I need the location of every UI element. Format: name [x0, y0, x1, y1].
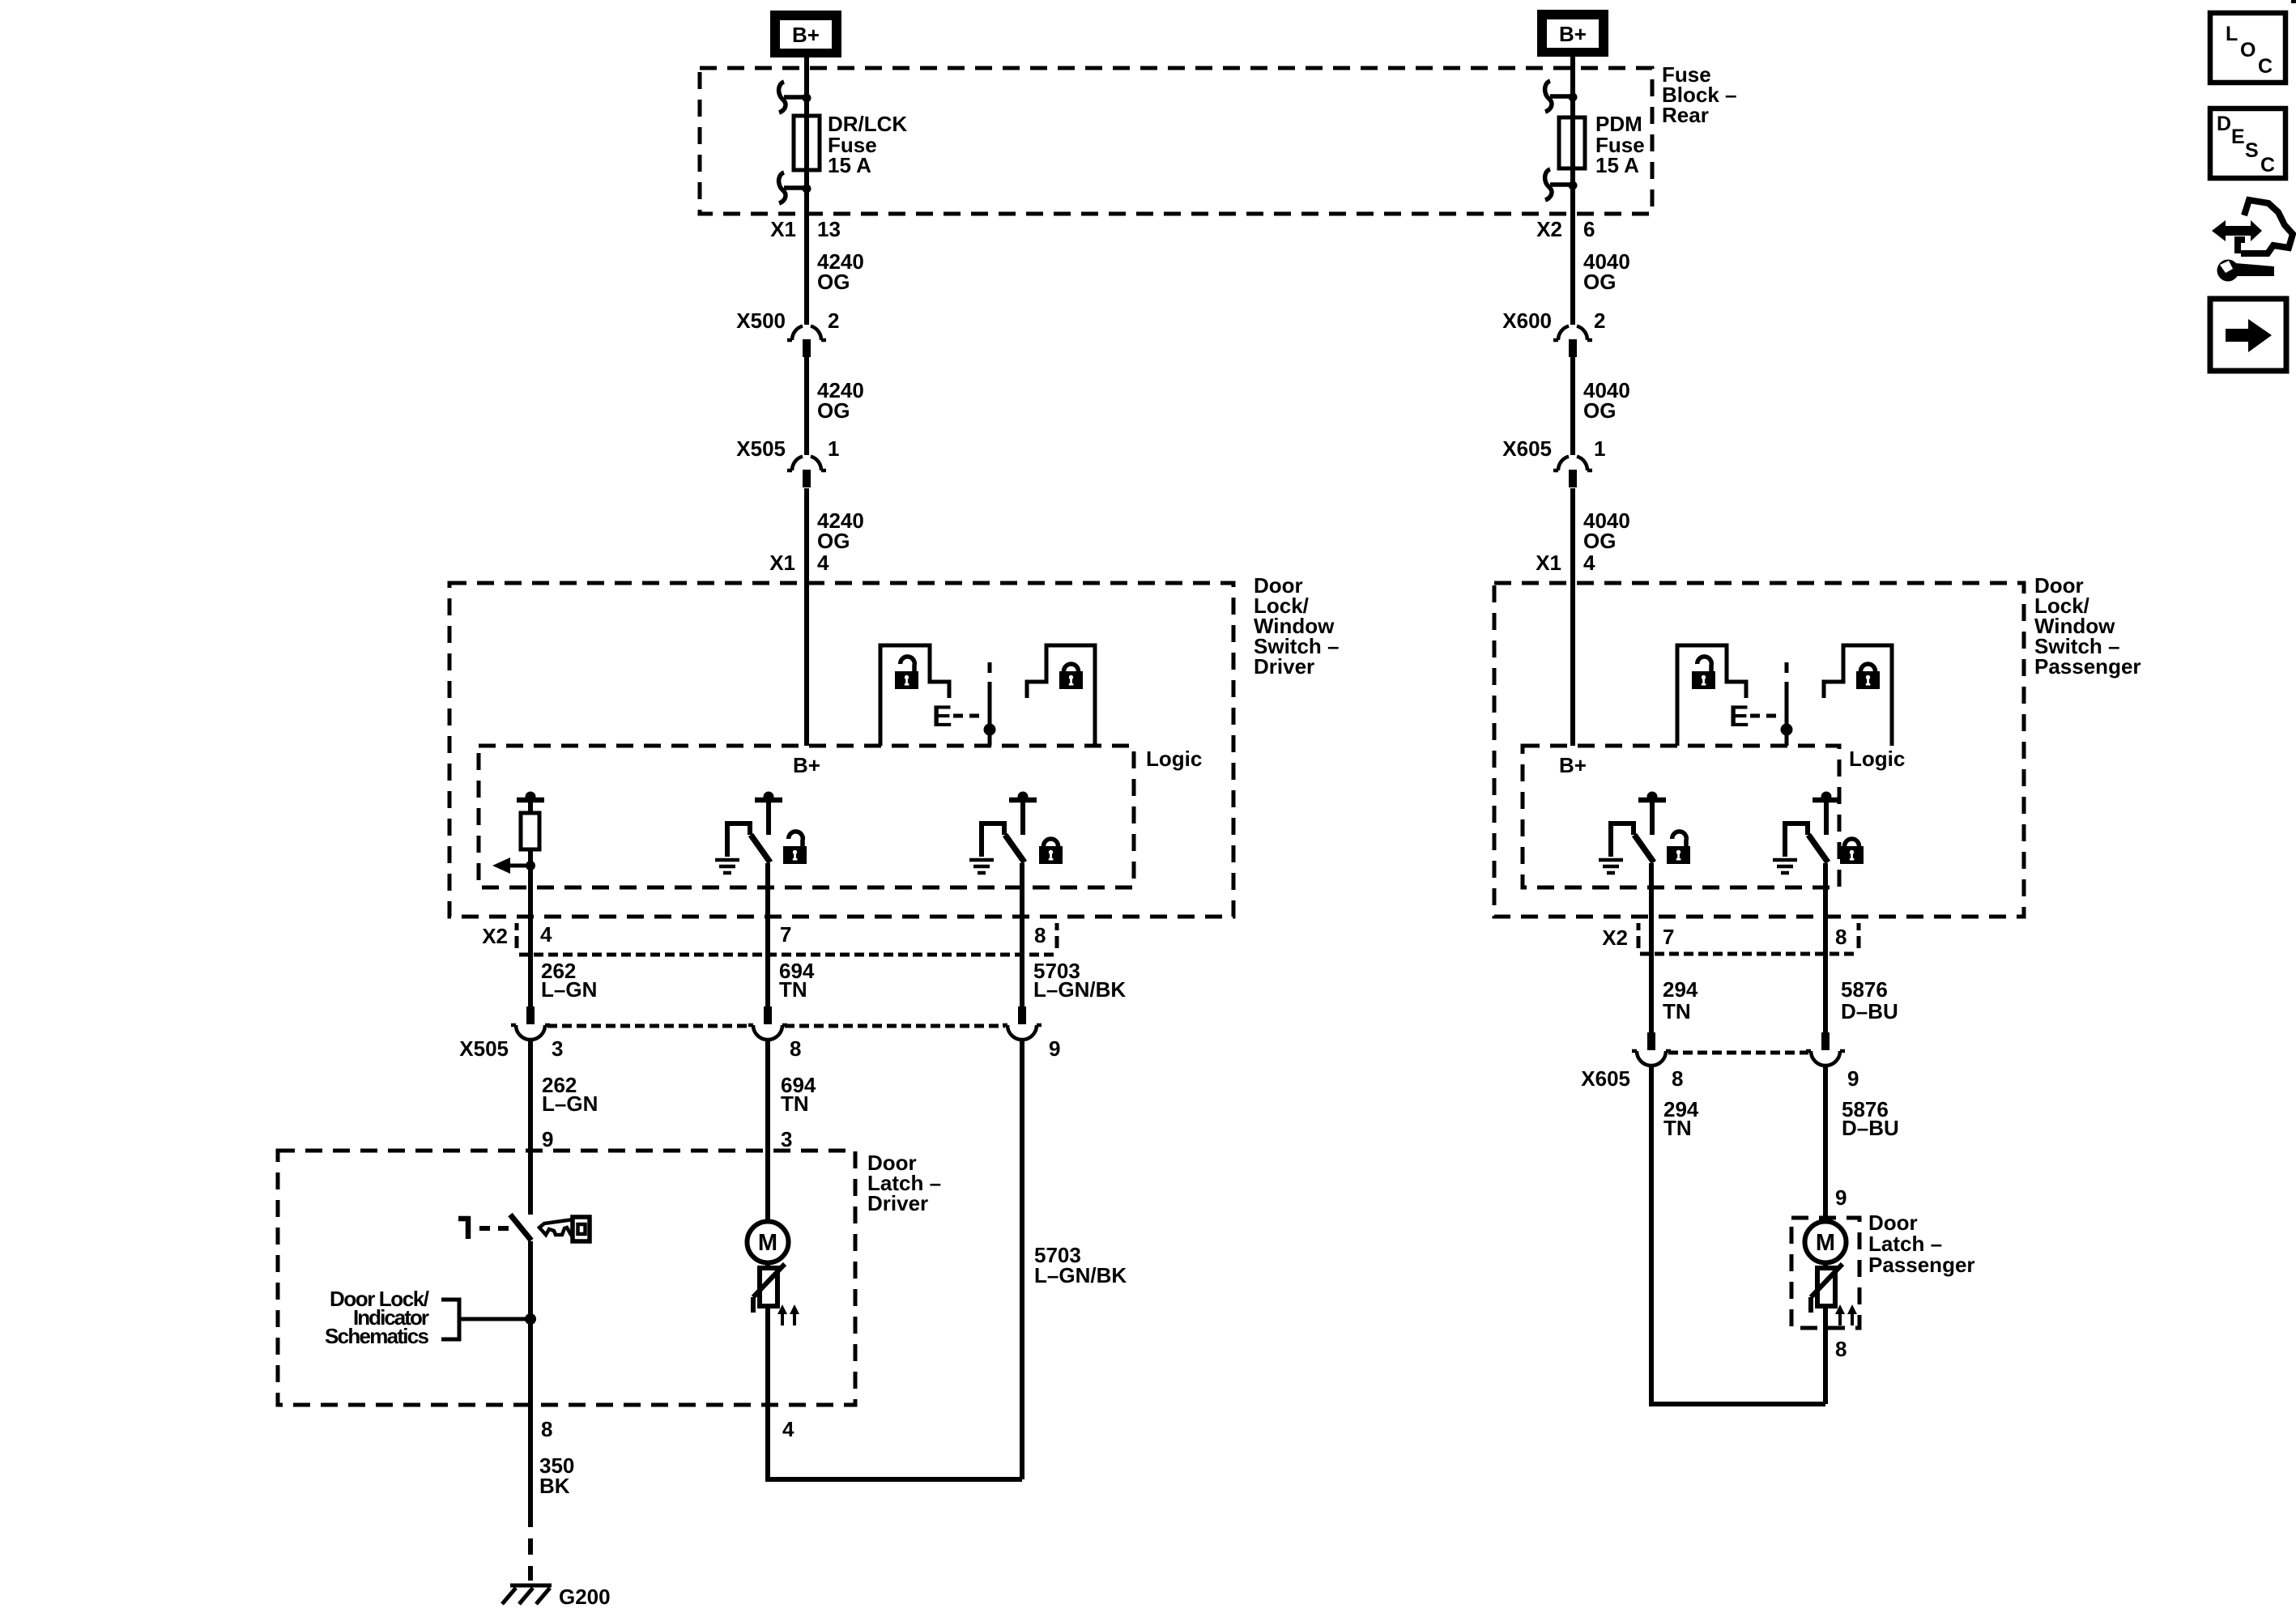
svg-text:8: 8 [1835, 1337, 1847, 1361]
svg-text:Schematics: Schematics [325, 1324, 429, 1348]
svg-text:9: 9 [1835, 1185, 1847, 1210]
svg-text:Logic: Logic [1849, 747, 1905, 771]
svg-text:X2: X2 [1602, 926, 1628, 950]
svg-text:6: 6 [1583, 217, 1595, 241]
svg-text:L–GN/BK: L–GN/BK [1034, 1263, 1127, 1287]
svg-text:13: 13 [817, 217, 841, 241]
svg-text:X600: X600 [1502, 309, 1552, 333]
svg-text:X505: X505 [459, 1036, 509, 1061]
svg-text:L: L [2226, 23, 2238, 45]
svg-text:Driver: Driver [1254, 654, 1314, 679]
svg-text:Passenger: Passenger [2034, 654, 2141, 679]
svg-text:OG: OG [817, 398, 850, 423]
svg-text:E: E [2231, 126, 2245, 148]
svg-text:4: 4 [540, 922, 552, 947]
svg-text:Rear: Rear [1662, 103, 1709, 127]
svg-text:C: C [2260, 154, 2275, 177]
svg-text:9: 9 [542, 1127, 553, 1151]
svg-text:OG: OG [1583, 529, 1616, 553]
svg-text:L–GN/BK: L–GN/BK [1033, 977, 1126, 1002]
svg-text:4: 4 [1583, 551, 1595, 575]
svg-text:9: 9 [1049, 1036, 1060, 1061]
svg-text:7: 7 [780, 922, 791, 947]
svg-text:X605: X605 [1581, 1066, 1630, 1091]
svg-text:OG: OG [1583, 398, 1616, 423]
svg-text:OG: OG [1583, 270, 1616, 294]
svg-text:X505: X505 [736, 436, 786, 461]
svg-text:S: S [2245, 139, 2259, 162]
svg-text:294: 294 [1663, 977, 1698, 1002]
svg-text:5876: 5876 [1841, 977, 1888, 1002]
svg-text:OG: OG [817, 529, 850, 553]
svg-text:8: 8 [1034, 923, 1046, 947]
svg-text:X2: X2 [482, 924, 508, 948]
svg-text:X605: X605 [1502, 436, 1552, 461]
svg-text:15 A: 15 A [828, 153, 871, 177]
svg-text:2: 2 [828, 309, 839, 333]
svg-text:1: 1 [1594, 436, 1605, 461]
svg-text:TN: TN [781, 1091, 809, 1116]
svg-text:1: 1 [828, 436, 839, 461]
svg-text:3: 3 [781, 1127, 792, 1151]
svg-text:X500: X500 [736, 309, 786, 333]
svg-text:TN: TN [1663, 1116, 1692, 1140]
svg-text:E: E [932, 700, 952, 733]
svg-text:Driver: Driver [867, 1191, 928, 1215]
svg-text:3: 3 [552, 1036, 563, 1061]
svg-text:7: 7 [1663, 925, 1674, 949]
svg-text:X2: X2 [1536, 217, 1562, 241]
svg-text:TN: TN [779, 977, 807, 1002]
svg-text:M: M [758, 1230, 777, 1256]
svg-text:G200: G200 [559, 1585, 611, 1609]
svg-text:O: O [2240, 39, 2256, 62]
svg-text:B+: B+ [793, 753, 820, 777]
svg-text:D–BU: D–BU [1842, 1116, 1899, 1140]
svg-text:B+: B+ [792, 23, 820, 47]
svg-text:X1: X1 [1536, 551, 1561, 575]
svg-text:D–BU: D–BU [1841, 999, 1898, 1023]
svg-text:M: M [1816, 1230, 1835, 1256]
svg-text:8: 8 [1835, 925, 1847, 949]
svg-text:Logic: Logic [1146, 747, 1202, 771]
svg-text:X1: X1 [770, 217, 796, 241]
svg-text:OG: OG [817, 270, 850, 294]
svg-text:TN: TN [1663, 999, 1691, 1023]
svg-text:L–GN: L–GN [542, 1091, 598, 1116]
svg-text:8: 8 [1672, 1066, 1683, 1091]
svg-text:BK: BK [539, 1474, 570, 1498]
svg-text:8: 8 [790, 1036, 801, 1061]
svg-text:B+: B+ [1559, 22, 1587, 46]
svg-text:4: 4 [817, 551, 829, 575]
svg-text:9: 9 [1847, 1066, 1859, 1091]
svg-text:2: 2 [1594, 309, 1605, 333]
svg-text:B+: B+ [1559, 753, 1587, 777]
svg-text:C: C [2258, 55, 2273, 78]
svg-text:X1: X1 [769, 551, 795, 575]
svg-text:15 A: 15 A [1595, 153, 1639, 177]
svg-text:4: 4 [782, 1417, 794, 1441]
svg-text:8: 8 [541, 1417, 552, 1441]
svg-text:Passenger: Passenger [1868, 1253, 1975, 1277]
svg-text:D: D [2217, 113, 2231, 135]
svg-text:L–GN: L–GN [541, 977, 597, 1002]
